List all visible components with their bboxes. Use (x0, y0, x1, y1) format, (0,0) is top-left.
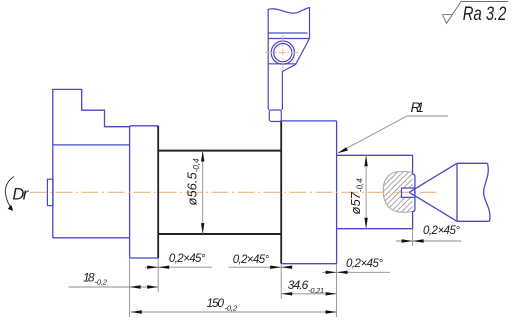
chuck stub (47, 179, 53, 205)
centerline main axis (30, 191, 439, 193)
chuck body (53, 89, 130, 238)
tool screw crosshair (266, 52, 301, 54)
pilot hole void (402, 188, 415, 197)
surface roughness symbol (442, 2, 508, 25)
svg-text:-0,2: -0,2 (225, 304, 238, 313)
svg-text:R1: R1 (411, 99, 425, 115)
flange bottom (281, 263, 336, 265)
workpiece gripped section bottom (130, 257, 159, 259)
svg-text:Ra 3.2: Ra 3.2 (463, 3, 507, 24)
chamfer callout 3 (flange right) (322, 258, 390, 274)
svg-text:0,2×45°: 0,2×45° (169, 253, 206, 265)
svg-text:0,2×45°: 0,2×45° (233, 254, 270, 266)
leader R1 (338, 99, 449, 153)
middle section bottom (machined) (158, 233, 281, 235)
chamfer callout 2 (flange left) (229, 254, 293, 269)
chuck jaw front face (129, 126, 131, 258)
flange top (281, 120, 336, 122)
svg-text:0,2×45°: 0,2×45° (423, 225, 460, 237)
middle section top (machined) (158, 150, 281, 152)
workpiece gripped section top (130, 125, 159, 127)
cutting tool (268, 8, 309, 122)
right journal end face with centre-hole ridge (413, 155, 415, 228)
flange right face (336, 121, 338, 264)
svg-text:Dr: Dr (12, 185, 29, 203)
svg-text:34.6: 34.6 (288, 278, 309, 292)
tailstock centre body (457, 163, 490, 221)
svg-text:-0,2: -0,2 (95, 278, 108, 287)
dim 150 (131, 296, 337, 314)
rotation symbol Dr (5, 177, 14, 209)
dim dia57 (348, 155, 368, 228)
centre pilot hole outline (402, 188, 415, 197)
chamfer callout 4 (right end) (396, 225, 461, 243)
svg-text:18: 18 (83, 271, 95, 285)
chamfer callout 1 (step at x=158) (145, 253, 212, 269)
svg-text:0,2×45°: 0,2×45° (346, 258, 383, 270)
local section boundary (383, 171, 412, 212)
extension lines (130, 229, 413, 317)
svg-text:-0,21: -0,21 (308, 286, 324, 295)
svg-text:150: 150 (207, 296, 225, 310)
right journal top (337, 154, 413, 156)
dim dia56.5 (185, 151, 205, 234)
right journal bottom (337, 228, 413, 230)
tailstock centre cone (409, 163, 457, 221)
flange left face (machined) (280, 121, 282, 264)
dim 34.6 (281, 278, 336, 296)
workpiece shoulder face (machined) (157, 126, 159, 258)
dim 18 (69, 271, 159, 289)
